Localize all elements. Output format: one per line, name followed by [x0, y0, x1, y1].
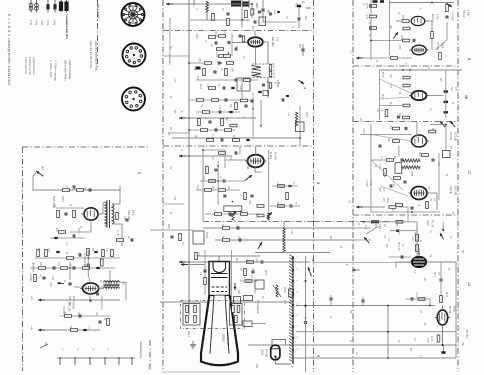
resistor R85 [431, 32, 434, 39]
arrow s8 term [356, 57, 363, 60]
capacitor C95 [378, 145, 381, 147]
junction x388c [387, 357, 389, 359]
wire s8 left bus [370, 0, 372, 60]
arrow term e [38, 329, 45, 332]
capacitor C91 [444, 101, 449, 103]
transformer Tr1 secondary [112, 204, 114, 224]
resistor R110 [389, 206, 396, 209]
deflection coil L1 [186, 306, 197, 323]
wire pw top1 [35, 257, 120, 259]
wire s8 top long [389, 2, 454, 4]
junction s17 bt [411, 211, 413, 213]
wire IF out [267, 78, 269, 99]
resistor R41 [77, 189, 84, 192]
svg-text:1M: 1M [206, 84, 208, 87]
svg-text:b8: b8 [246, 166, 250, 170]
resistor R128 [241, 99, 248, 102]
wire bus vertical x189 [188, 0, 190, 315]
capacitor C4 [297, 18, 300, 20]
resistor R28 [244, 193, 247, 200]
svg-text:1703: 1703 [436, 14, 439, 20]
junction bus189 b [188, 155, 190, 157]
resistor R53 [87, 249, 90, 256]
wire v12 stem [418, 250, 420, 257]
junction d [89, 299, 91, 301]
resistor R33 [241, 213, 248, 216]
junction x388a [387, 305, 389, 307]
junction if1 [267, 81, 269, 83]
svg-text:17: 17 [467, 170, 471, 174]
resistor R9 [203, 69, 206, 76]
svg-text:U2502: U2502 [222, 334, 226, 342]
capacitor C27 [229, 212, 231, 215]
capacitor C112 [401, 255, 403, 258]
svg-text:PL 83: PL 83 [274, 152, 278, 160]
resistor R3 [245, 11, 248, 18]
tube V9 EF80 [409, 91, 429, 100]
resistor R73 [244, 269, 247, 276]
wire sb row105 [380, 105, 402, 107]
wire s17 stem [416, 122, 418, 138]
wire rrow316 [60, 315, 110, 317]
svg-text:W.01: W.01 [381, 94, 383, 100]
wire top y4 [170, 3, 252, 5]
svg-text:(Rö1 8): (Rö1 8) [449, 186, 452, 194]
resistor R52 [67, 257, 74, 260]
junction lineC2 [442, 344, 444, 346]
svg-text:Uradio: Uradio [29, 274, 33, 282]
arrow terminal F [179, 117, 186, 120]
svg-text:Lautsprecher der: Lautsprecher der [65, 15, 69, 40]
junction t1l c [299, 137, 301, 139]
box s17 right [443, 151, 451, 158]
junction pw2 [69, 267, 71, 269]
resistor R45 [116, 213, 119, 220]
resistor R26 [205, 189, 212, 192]
label b8 arrow [245, 175, 252, 181]
coil s17 trafo [402, 159, 421, 169]
resistor R62 [65, 315, 72, 318]
divider right 17/12 [353, 214, 458, 216]
svg-text:2. 220V= Leitung: 2. 220V= Leitung [54, 60, 58, 81]
wire v11 right [427, 193, 437, 210]
blob C12 [231, 87, 234, 89]
tube V3 PL83 [245, 155, 266, 168]
coil L4 [232, 214, 235, 221]
wire s12 row231 [390, 230, 417, 232]
junction v13 [442, 344, 444, 346]
capacitor C13 [225, 98, 227, 101]
wire pw x88 [87, 250, 89, 276]
resistor R32 [215, 213, 222, 216]
arrow terminal y156 [179, 155, 186, 158]
resistor R131 [429, 130, 436, 133]
wire s8 net2 [425, 21, 432, 50]
blob C129 [286, 95, 289, 97]
svg-text:a/2: a/2 [41, 166, 45, 170]
resistor R112 [415, 234, 418, 241]
svg-text:C60: C60 [77, 312, 79, 317]
label EY86 [261, 349, 269, 357]
capacitor C43 [73, 234, 75, 237]
junction if2 [267, 91, 269, 93]
tube V5 PCL82 pentode [80, 283, 101, 294]
label V5 [68, 296, 75, 305]
wire v5 k down [89, 293, 91, 300]
wire s17 diag2 [371, 160, 403, 190]
resistor R57 [61, 267, 68, 270]
blob s8 b [380, 0, 384, 3]
transformer Tr1 primary [105, 202, 107, 226]
arrow strip [308, 267, 312, 276]
resistor R44 [59, 231, 66, 234]
capacitor C60 [79, 314, 81, 317]
svg-text:2M: 2M [383, 174, 385, 177]
junction lineC1 [275, 357, 277, 359]
capacitor C70 [203, 270, 206, 272]
wire crt right v [231, 250, 233, 302]
svg-text:N.O: N.O [364, 225, 367, 229]
junction va3 [241, 35, 243, 37]
svg-text:50Hz: 50Hz [264, 270, 267, 276]
resistor R24 [206, 167, 209, 174]
transformer T2 coil a [104, 281, 120, 283]
svg-text:ECL 80: ECL 80 [454, 132, 458, 142]
coil L1 top [206, 1, 209, 20]
wire crt left v [204, 250, 206, 295]
resistor R101 [426, 202, 429, 209]
deflection unit box [181, 301, 245, 329]
svg-text:4503: 4503 [61, 196, 64, 202]
svg-text:1M: 1M [398, 91, 400, 94]
wire x253 [252, 97, 254, 138]
capacitor C80 [413, 39, 415, 42]
svg-text:C22: C22 [173, 196, 175, 201]
svg-text:Fernbedienung: Fernbedienung [139, 341, 143, 359]
svg-text:Bildbreite: Bildbreite [32, 262, 35, 273]
svg-text:1. 220V~ 2hSt: 1. 220V~ 2hSt [49, 60, 53, 77]
resistor R35 [223, 227, 230, 230]
resistor R54 [102, 250, 105, 257]
resistor R70 [195, 253, 198, 260]
capacitor C9 [213, 71, 216, 73]
capacitor C5 [239, 34, 241, 37]
svg-text:C40: C40 [83, 186, 85, 191]
junction sb1 [305, 305, 307, 307]
svg-text:1M: 1M [423, 322, 425, 325]
arrow s12 t2 [352, 269, 359, 272]
wire s12 row257 [389, 256, 411, 258]
wire s8 tube net [396, 20, 401, 22]
svg-text:(Rö?): (Rö?) [426, 220, 429, 226]
svg-text:C96: C96 [437, 162, 439, 167]
svg-text:C29: C29 [235, 224, 237, 229]
svg-text:L74: L74 [290, 230, 294, 235]
svg-text:C72: C72 [245, 258, 247, 263]
blob C126 [258, 91, 261, 93]
box small [289, 289, 294, 297]
arrow L4 [230, 211, 237, 216]
capacitor C15 [219, 110, 221, 113]
wire pw v1 [69, 262, 71, 280]
svg-text:-F: -F [345, 263, 349, 266]
resistor R125 [257, 205, 264, 208]
junction t1l b [260, 125, 262, 127]
resistor R83 [403, 39, 410, 42]
junction bus189 c [188, 261, 190, 263]
junction s5c [232, 201, 234, 203]
resistor R51 [45, 250, 48, 257]
svg-text:4: 4 [303, 87, 307, 89]
deflection sub box R [230, 304, 243, 326]
wire t2 right [120, 283, 127, 301]
svg-text:3 W: 3 W [53, 20, 57, 25]
resistor R129 [230, 124, 237, 127]
wire v5 left [74, 286, 82, 288]
junction bus8a [370, 5, 372, 7]
junction lineB1 [305, 305, 307, 307]
IF resistor b [269, 71, 271, 77]
capacitor C21 [235, 151, 237, 154]
capacitor C123 [96, 293, 99, 295]
svg-text:M.38: M.38 [305, 112, 307, 118]
resistor R94 [403, 116, 410, 119]
blob C44 [54, 237, 57, 239]
loudspeaker symbol LS6 [64, 0, 68, 13]
arrow c20 [57, 282, 64, 285]
resistor R11 [244, 79, 251, 82]
wire left edge y230 [150, 229, 165, 231]
wire y345 right bus [248, 344, 456, 346]
svg-text:+F: +F [348, 200, 352, 204]
wire y262b [240, 261, 280, 263]
dash mark [306, 7, 311, 9]
svg-text:Antennen und: Antennen und [24, 57, 28, 74]
box s5 pair [224, 206, 242, 212]
box defl right [243, 321, 252, 327]
capacitor C115 [411, 297, 413, 300]
terminal hook 2 [74, 358, 76, 365]
resistor R121 [224, 55, 231, 58]
wire y228 bus [203, 227, 355, 229]
wire row130 [189, 129, 235, 131]
wire row80 [196, 79, 258, 81]
blob C114 [441, 351, 445, 354]
wire v4 k [70, 220, 91, 232]
wire r4 [210, 35, 218, 37]
svg-text:W97: W97 [167, 224, 170, 230]
svg-text:C10: C10 [173, 78, 175, 83]
wire pw x88b [88, 276, 90, 283]
svg-text:(Rö9): (Rö9) [72, 303, 75, 309]
svg-text:W.41: W.41 [386, 198, 388, 204]
junction T1 [241, 19, 243, 21]
svg-text:ECL 84 PC5 80 PY 81: ECL 84 PC5 80 PY 81 [94, 41, 98, 71]
wire v4 grid [56, 207, 84, 209]
resistor R100 [394, 177, 401, 180]
resistor R1 [212, 14, 215, 21]
wire s17 diag3 [380, 186, 408, 196]
wire v12 top [418, 248, 420, 257]
tube socket S2 (9-pin) [123, 44, 146, 67]
resistor R115 [437, 335, 440, 342]
transformer T2 coil b [104, 287, 120, 289]
resistor R5 [217, 48, 224, 51]
capacitor C7 [235, 47, 237, 50]
resistor R27 [219, 189, 226, 192]
transformer core blob [231, 1, 250, 7]
arrow s12 d [364, 237, 369, 243]
blob C25 [288, 185, 291, 187]
tube V11 ECL80b [409, 187, 430, 200]
arrow focus [234, 283, 237, 290]
svg-text:Röhrenunterteil von unten gese: Röhrenunterteil von unten gesehen [168, 18, 172, 65]
wire s8 row58 [360, 57, 412, 59]
svg-text:E 301: E 301 [269, 152, 273, 160]
wire ey86 down [275, 360, 291, 364]
resistor R42 [57, 211, 60, 218]
wire y358 bottom bus [293, 357, 456, 359]
CRT gun cup [213, 262, 226, 273]
svg-text:C24: C24 [248, 200, 250, 205]
arrow term d [38, 299, 45, 302]
svg-text:Bildamplitude: Bildamplitude [256, 300, 259, 315]
tube V8 PY88 [409, 45, 428, 55]
wire left edge y204 [163, 203, 184, 205]
wire T1 d [298, 8, 300, 28]
wire row63 [190, 62, 204, 64]
svg-text:C20: C20 [49, 282, 53, 287]
arrow crt left [181, 263, 188, 266]
wire c130 [305, 316, 307, 328]
svg-text:P.22: P.22 [376, 108, 378, 113]
wire V2 down [254, 47, 256, 65]
svg-text:T.03M: T.03M [365, 180, 367, 186]
wire tr1 b [112, 186, 120, 204]
junction v12 a [418, 253, 420, 255]
svg-text:W.07: W.07 [445, 292, 447, 298]
divider section5 bottom [203, 221, 314, 223]
svg-text:W03: W03 [195, 34, 197, 39]
wire crt top [198, 255, 260, 257]
wire mid-right y228 [355, 227, 371, 229]
capacitor C6 [228, 41, 230, 44]
deflection coil R [232, 306, 240, 323]
wire v5 right [98, 270, 110, 287]
resistor R13 [197, 99, 204, 102]
svg-text:S.01: S.01 [426, 338, 428, 343]
note mains text [49, 60, 72, 81]
CRT funnel inner [209, 296, 230, 354]
svg-text:C13: C13 [218, 105, 220, 110]
capacitor C116 [329, 298, 332, 300]
capacitor C93 [397, 116, 400, 118]
capacitor C51 [79, 253, 81, 256]
label PCF82 [271, 37, 280, 47]
capacitor C100 [410, 207, 413, 209]
box s17 left [395, 163, 402, 174]
capacitor C56 [42, 277, 45, 279]
resistor R92 [403, 104, 410, 107]
svg-text:angeschlossen: angeschlossen [32, 57, 36, 75]
wire sb right v [445, 70, 447, 118]
ground crt [190, 341, 196, 349]
wire v13 up [442, 306, 444, 311]
svg-text:5,1M: 5,1M [369, 180, 371, 185]
wire s17 rv [438, 153, 440, 200]
junction va2 [220, 62, 222, 64]
svg-text:ECL 80: ECL 80 [454, 186, 458, 196]
svg-text:1 W: 1 W [46, 20, 50, 25]
svg-text:V03: V03 [214, 30, 218, 35]
svg-text:8: 8 [137, 172, 141, 174]
svg-text:C75: C75 [283, 300, 285, 305]
svg-text:14.03: 14.03 [362, 128, 364, 134]
svg-text:P.: P. [290, 366, 294, 369]
svg-text:W22: W22 [400, 35, 403, 41]
svg-text:W.75: W.75 [365, 3, 368, 9]
resistor R50 [37, 250, 40, 257]
wire s12 rstub [442, 222, 444, 230]
wire k17 [40, 344, 48, 348]
capacitor C41 [89, 188, 91, 191]
wire c117 [362, 297, 364, 306]
blob C121 [196, 67, 201, 70]
resistor R36 [223, 239, 230, 242]
blob C20 [246, 139, 249, 141]
junction s5lb [202, 149, 204, 151]
wire a2 down [33, 173, 120, 190]
blob C110 [371, 220, 379, 223]
resistor R99 [384, 169, 387, 176]
svg-text:220-1: 220-1 [187, 331, 190, 338]
wire terminal y262 [185, 261, 310, 263]
wire v3 down [268, 150, 270, 221]
border right column left [352, 0, 354, 372]
wire s12 net3 [416, 222, 418, 257]
svg-text:220Vxx beliebig: 220Vxx beliebig [68, 60, 72, 79]
wire s17 trafo [411, 171, 413, 176]
svg-text:W25: W25 [401, 15, 404, 21]
terminal hook 5 [118, 358, 120, 365]
svg-text:1503: 1503 [283, 287, 286, 293]
resistor R84 [391, 57, 398, 60]
terminal strip hatching [292, 256, 294, 364]
svg-text:5600: 5600 [255, 3, 258, 9]
capacitor C128 [282, 98, 284, 101]
tube V12 PL36 [407, 257, 431, 268]
coil L2 [283, 228, 285, 252]
capacitor C2 [254, 20, 256, 23]
arrow s5b [258, 242, 262, 249]
border left block left [22, 147, 24, 371]
capacitor C117 [361, 300, 364, 302]
wire v12 left [396, 262, 407, 268]
junction bus8b [370, 27, 372, 29]
junction sb t2 [409, 69, 411, 71]
resistor R130 [251, 9, 253, 15]
loudspeaker symbol LS1 [29, 0, 33, 13]
box detector [237, 78, 250, 91]
svg-text:C21: C21 [229, 156, 231, 161]
svg-text:Bildfang: Bildfang [238, 146, 241, 155]
wire y252 bus [255, 252, 330, 254]
box top-center [259, 17, 266, 26]
capacitor C10 [235, 78, 237, 81]
wire s8 v2 [389, 0, 391, 55]
svg-text:Die an den Pkten: Die an den Pkten [64, 60, 68, 81]
wire s12 v [399, 207, 408, 221]
